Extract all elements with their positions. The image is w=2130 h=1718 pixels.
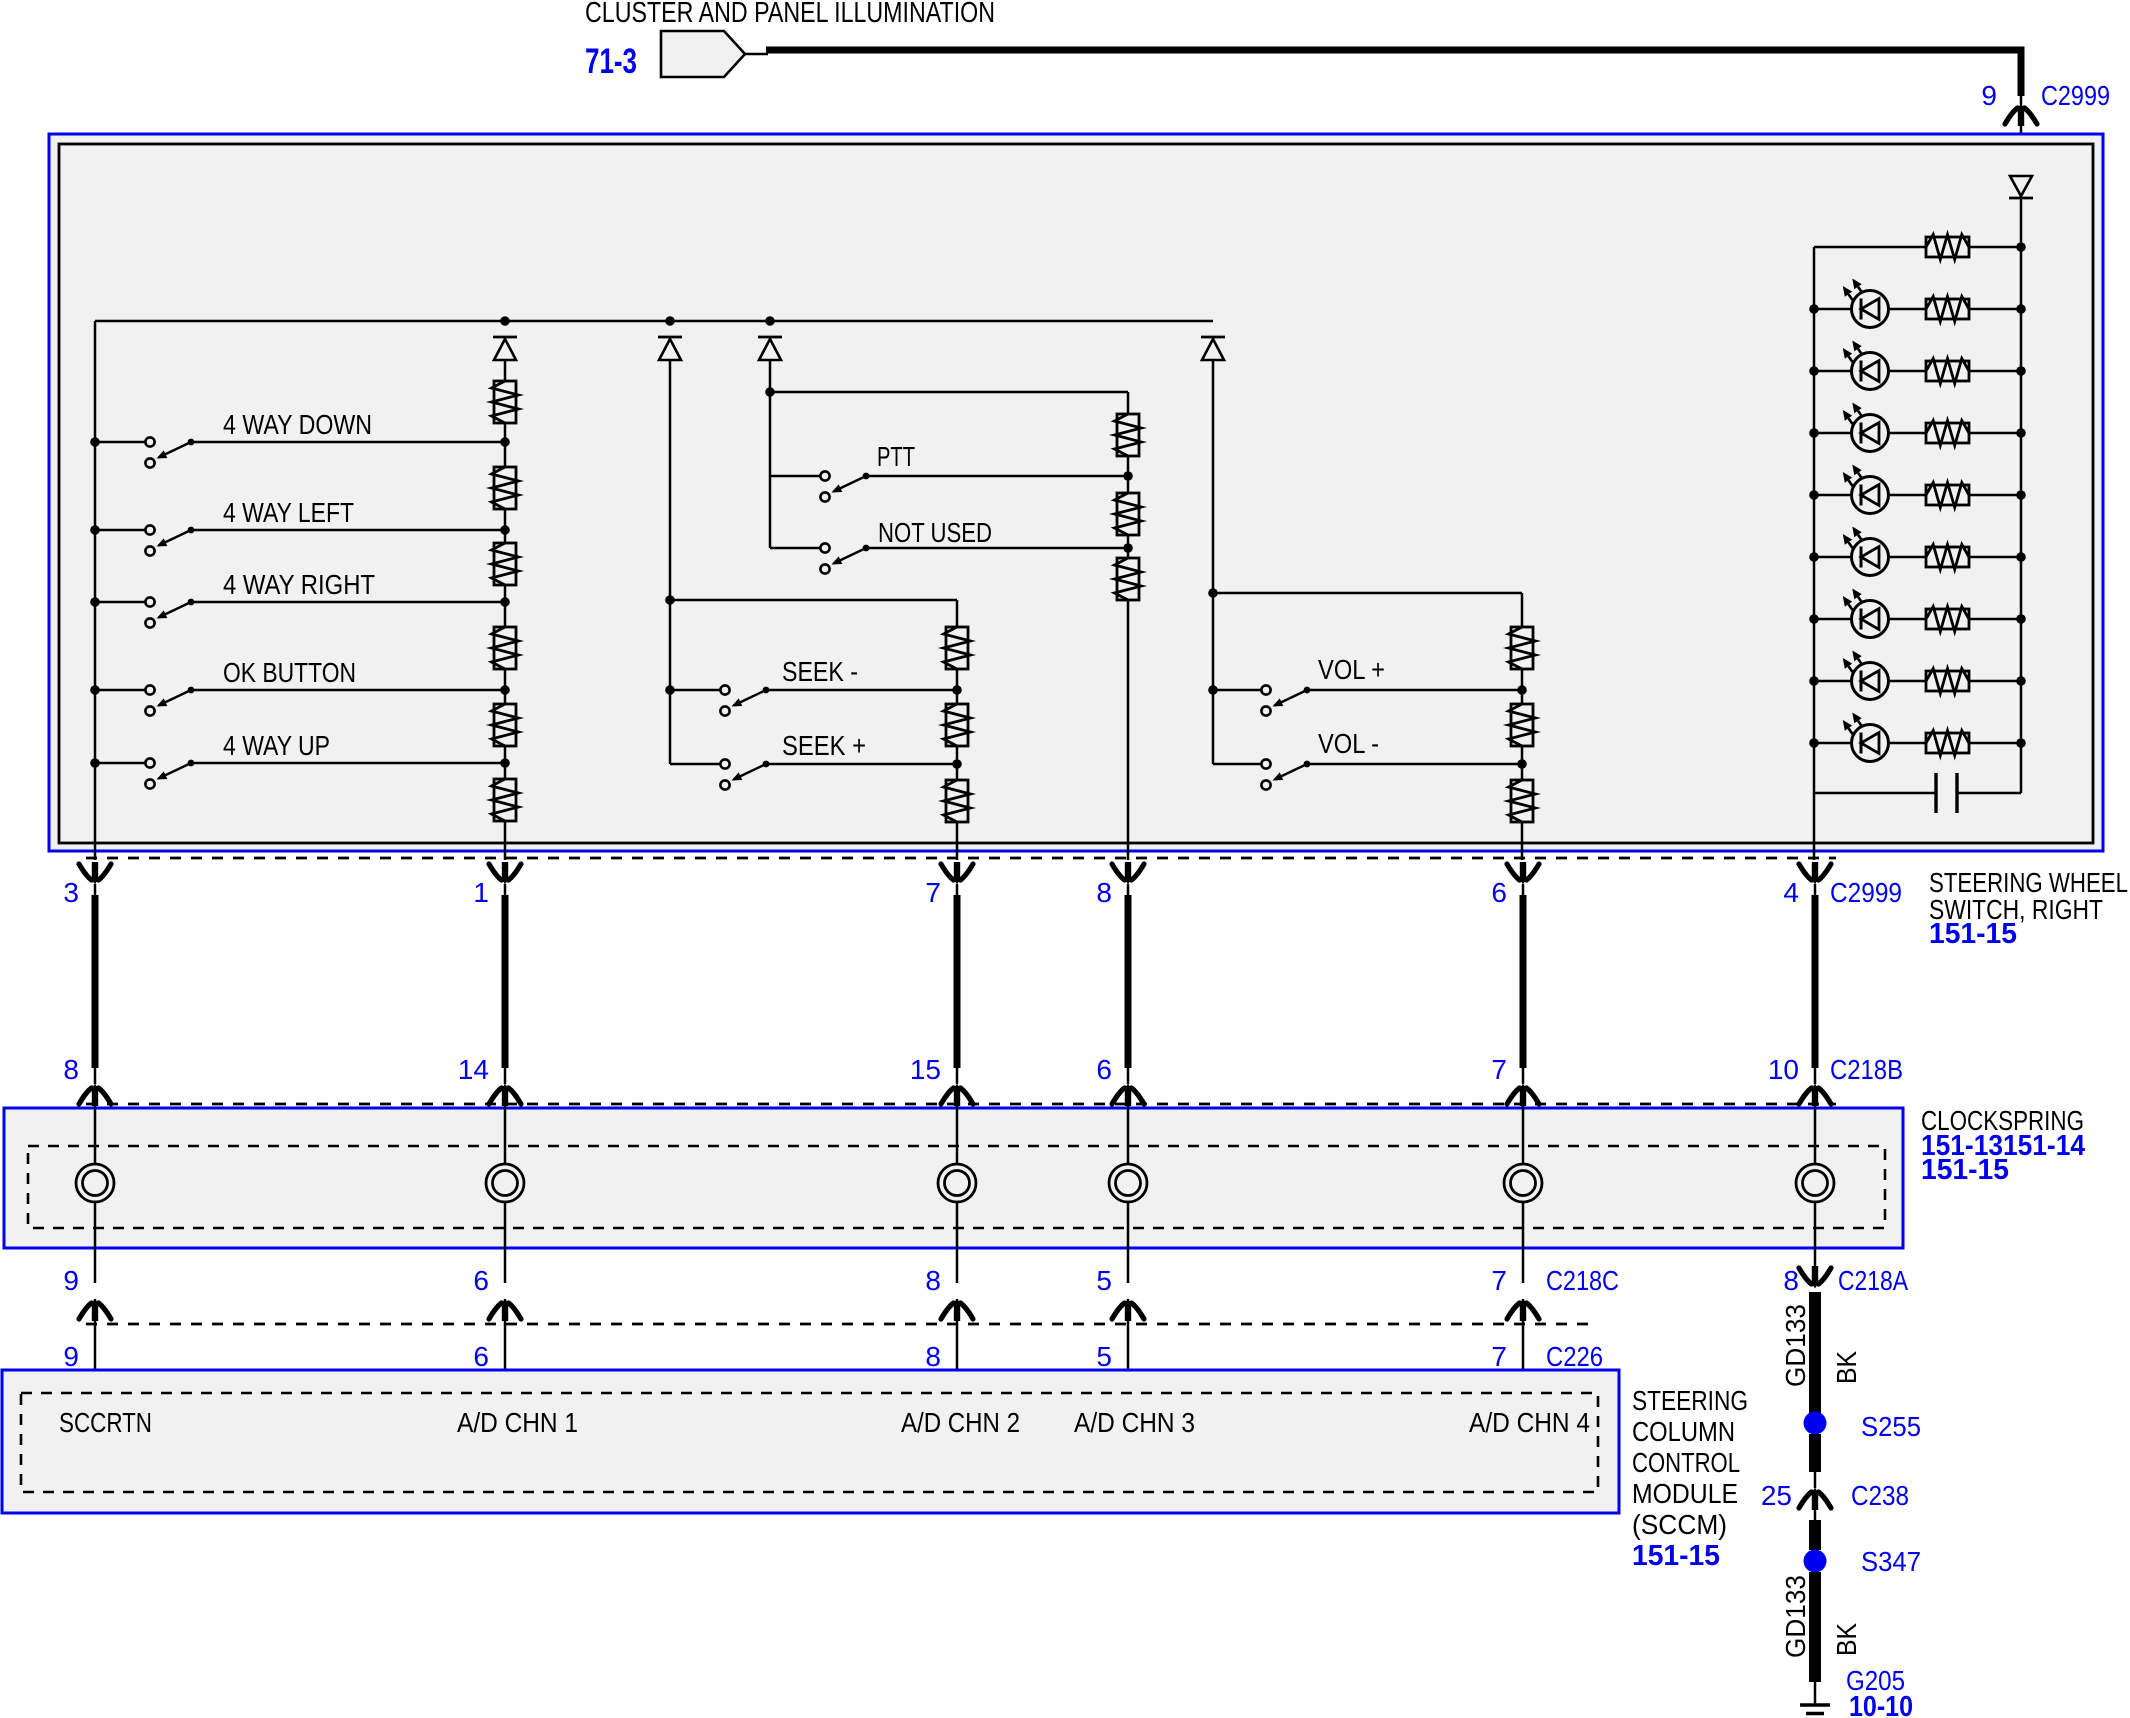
LED left bus xyxy=(1813,247,1816,860)
svg-text:A/D CHN 1: A/D CHN 1 xyxy=(457,1407,578,1438)
switch SEEK - xyxy=(720,685,729,694)
thick illumination feed wire xyxy=(766,50,2021,96)
node left bus 4 WAY LEFT xyxy=(90,525,100,535)
wire resistor to right bus row2 xyxy=(1969,370,2021,373)
wire switch to resistor column 4 WAY RIGHT xyxy=(191,601,505,604)
node left bus OK BUTTON xyxy=(90,685,100,695)
thick wire pin 3 xyxy=(92,895,99,1068)
svg-text:C226: C226 xyxy=(1546,1341,1603,1372)
wire into clockspring x1128 xyxy=(1127,1104,1130,1164)
wire PTT mid joints xyxy=(1127,476,1130,493)
illumination resistor row0 xyxy=(1926,237,1969,257)
wire below C238 xyxy=(1814,1509,1817,1522)
resistor PTT top xyxy=(1117,414,1139,456)
wire diode x1213 down xyxy=(1212,360,1215,593)
node resistor column 4 WAY DOWN xyxy=(500,437,510,447)
wire seek res col top xyxy=(956,600,959,627)
wire resistor to right bus row8 xyxy=(1969,742,2021,745)
svg-text:151-15: 151-15 xyxy=(1921,1154,2009,1186)
clockspring coil x957 xyxy=(938,1164,976,1202)
connector C218B pin 10 arrow xyxy=(1799,1088,1812,1104)
wire out of clockspring x957 xyxy=(956,1202,959,1283)
connector C218B pin 6 arrow xyxy=(1112,1088,1125,1104)
wire into clockspring x95 xyxy=(94,1104,97,1164)
wire VOL+ switch to col xyxy=(1307,689,1522,692)
wire C2999 pin 8 stub xyxy=(1127,884,1130,897)
wire left bus to LED row1 xyxy=(1814,308,1852,311)
wire out of clockspring x505 xyxy=(504,1202,507,1283)
node LED left bus row3 xyxy=(1809,428,1819,438)
thick wire C238 to S347 xyxy=(1809,1520,1821,1550)
connector C218C pin 9 arrow xyxy=(79,1303,92,1319)
connector C218B pin 7 arrow xyxy=(1507,1088,1520,1104)
wire vol res col top xyxy=(1521,593,1524,627)
top bus wire xyxy=(95,320,1213,323)
SCCM blue box xyxy=(2,1370,1619,1513)
resistor VOL top xyxy=(1511,627,1533,669)
wire seek mid joints xyxy=(956,690,959,704)
wire R-E joints xyxy=(504,690,507,704)
thick wire pin 8 xyxy=(1125,895,1132,1068)
svg-text:7: 7 xyxy=(925,877,941,908)
illumination resistor row7 xyxy=(1926,671,1969,691)
illumination resistor row4 xyxy=(1926,485,1969,505)
wire out of clockspring x95 xyxy=(94,1202,97,1283)
clockspring inner dashed box xyxy=(28,1146,1885,1228)
wire C2999 pin 1 stub xyxy=(504,884,507,897)
node LED left bus row7 xyxy=(1809,676,1819,686)
connector C218B pin 14 arrow xyxy=(489,1088,502,1104)
wire diode x670 down xyxy=(669,360,672,600)
node x770 PTT branch xyxy=(765,387,775,397)
node LED left bus row1 xyxy=(1809,304,1819,314)
node vol branch xyxy=(1208,588,1218,598)
wire switch to resistor column 4 WAY UP xyxy=(191,762,505,765)
wire to C218B pin 8 xyxy=(94,1068,97,1084)
node seek branch x670 xyxy=(665,595,675,605)
switch NOT USED xyxy=(820,543,829,552)
node NOT USED col xyxy=(1123,543,1133,553)
wire x670 down to seek+ xyxy=(669,600,672,764)
wire diode x770 down xyxy=(769,360,772,548)
wire SEEK+ switch to col xyxy=(766,763,957,766)
svg-text:S255: S255 xyxy=(1861,1411,1921,1442)
svg-text:8: 8 xyxy=(63,1054,79,1085)
svg-text:C218C: C218C xyxy=(1546,1265,1619,1296)
wire resistor to right bus row7 xyxy=(1969,680,2021,683)
svg-text:OK BUTTON: OK BUTTON xyxy=(223,657,356,688)
splice S255 xyxy=(1804,1412,1827,1435)
wire switch to resistor column OK BUTTON xyxy=(191,689,505,692)
connector C238 arrow xyxy=(1799,1492,1812,1508)
wire LED to resistor row8 xyxy=(1889,742,1926,745)
connector C2999 pin 9 arrow xyxy=(2005,108,2018,124)
resistor VOL bottom xyxy=(1511,780,1533,822)
SCCM inner dashed box xyxy=(21,1393,1598,1492)
switch 4 WAY UP xyxy=(145,758,154,767)
connector C2999 pin 3 arrow xyxy=(79,864,92,880)
LED row6 xyxy=(1852,601,1889,638)
wire left bus to LED row7 xyxy=(1814,680,1852,683)
svg-text:A/D CHN 3: A/D CHN 3 xyxy=(1074,1407,1195,1438)
wire bus to SEEK- switch xyxy=(670,689,720,692)
wire LED to resistor row5 xyxy=(1889,556,1926,559)
svg-text:SCCRTN: SCCRTN xyxy=(59,1407,152,1438)
wire seek top bus xyxy=(670,599,957,602)
wire resistor to right bus row3 xyxy=(1969,432,2021,435)
off-page connector pentagon xyxy=(661,31,745,77)
svg-text:6: 6 xyxy=(1491,877,1507,908)
wire bus to SEEK+ switch xyxy=(670,763,720,766)
steering wheel switch outer blue box xyxy=(49,134,2103,851)
switch PTT xyxy=(820,471,829,480)
node VOL- col xyxy=(1517,759,1527,769)
svg-text:PTT: PTT xyxy=(877,441,915,472)
wire col x1128 to pin8 xyxy=(1127,548,1130,558)
thick wire pin 4 xyxy=(1812,895,1819,1068)
illumination resistor row6 xyxy=(1926,609,1969,629)
connector C2999 pin 1 arrow xyxy=(489,864,502,880)
wire x770 to PTT switch xyxy=(770,475,820,478)
wire into clockspring x957 xyxy=(956,1104,959,1164)
node right bus row5 xyxy=(2016,552,2026,562)
wire R-D joints xyxy=(504,602,507,627)
node LED left bus row4 xyxy=(1809,490,1819,500)
LED row8 xyxy=(1852,725,1889,762)
connector C218B pin 15 arrow xyxy=(941,1088,954,1104)
wire bus to switch OK BUTTON xyxy=(95,689,145,692)
wire x770 to NOT USED switch xyxy=(770,547,820,550)
wire bus to VOL+ switch xyxy=(1213,689,1261,692)
ground G205 symbol xyxy=(1800,1703,1830,1706)
wire bus to VOL- switch xyxy=(1213,763,1261,766)
node resistor column 4 WAY RIGHT xyxy=(500,597,510,607)
connector C218C pin 7 arrow xyxy=(1507,1303,1520,1319)
switch 4 WAY RIGHT xyxy=(145,597,154,606)
node right bus row0 xyxy=(2016,242,2026,252)
svg-text:7: 7 xyxy=(1491,1341,1507,1372)
clockspring coil x95 xyxy=(76,1164,114,1202)
wire LED to resistor row4 xyxy=(1889,494,1926,497)
wire into clockspring x505 xyxy=(504,1104,507,1164)
node vol+ bus xyxy=(1208,685,1218,695)
wire to C218B pin 6 xyxy=(1127,1068,1130,1084)
wire VOL- switch to col xyxy=(1307,763,1522,766)
svg-text:10: 10 xyxy=(1768,1054,1799,1085)
node resistor column 4 WAY LEFT xyxy=(500,525,510,535)
svg-text:8: 8 xyxy=(925,1341,941,1372)
diode col x770 xyxy=(758,336,782,339)
node right bus row3 xyxy=(2016,428,2026,438)
svg-text:BK: BK xyxy=(1831,1623,1862,1656)
svg-text:5: 5 xyxy=(1096,1341,1112,1372)
svg-text:4 WAY UP: 4 WAY UP xyxy=(223,730,330,761)
wire diode to R-A xyxy=(504,360,507,381)
wire C2999 pin 6 stub xyxy=(1522,884,1525,897)
wire PTT switch to col xyxy=(866,475,1128,478)
wire to C238 arrow xyxy=(1814,1472,1817,1488)
connector C218B dashed line xyxy=(86,1103,1836,1106)
wire resistor to right bus row5 xyxy=(1969,556,2021,559)
illumination resistor row3 xyxy=(1926,423,1969,443)
svg-text:6: 6 xyxy=(473,1265,489,1296)
resistor SEEK top xyxy=(946,627,968,669)
node LED left bus row5 xyxy=(1809,552,1819,562)
LED row2 xyxy=(1852,353,1889,390)
svg-text:4 WAY RIGHT: 4 WAY RIGHT xyxy=(223,569,375,600)
wire C218C pin 5 to SCCM xyxy=(1127,1299,1130,1393)
thick wire GD133 lower xyxy=(1809,1572,1821,1682)
svg-text:S347: S347 xyxy=(1861,1546,1921,1577)
resistor PTT mid xyxy=(1117,493,1139,535)
wire capacitor to right bus xyxy=(1957,792,2021,795)
connector C2999 pin 8 arrow xyxy=(1112,864,1125,880)
wire left bus to LED row6 xyxy=(1814,618,1852,621)
node SEEK- col xyxy=(952,685,962,695)
svg-text:CONTROL: CONTROL xyxy=(1632,1447,1740,1478)
resistor SEEK mid xyxy=(946,704,968,746)
connector C226 dashed line xyxy=(86,1323,1594,1326)
wire vol top bus xyxy=(1213,592,1522,595)
wire vol mid joints xyxy=(1521,690,1524,704)
connector C2999 dashed line xyxy=(86,857,1836,860)
wire left bus to capacitor xyxy=(1814,792,1936,795)
wire out of clockspring x1815 xyxy=(1814,1202,1817,1268)
node resistor column OK BUTTON xyxy=(500,685,510,695)
wire C2999 pin 4 stub xyxy=(1814,884,1817,897)
wire x1213 down to vol- xyxy=(1212,593,1215,764)
svg-text:151-15: 151-15 xyxy=(1929,918,2017,950)
wire resistor to right bus row6 xyxy=(1969,618,2021,621)
wire bus to switch 4 WAY DOWN xyxy=(95,441,145,444)
node right bus row8 xyxy=(2016,738,2026,748)
wire bus to switch 4 WAY RIGHT xyxy=(95,601,145,604)
svg-text:VOL +: VOL + xyxy=(1318,654,1385,685)
node right bus row4 xyxy=(2016,490,2026,500)
resistor VOL mid xyxy=(1511,704,1533,746)
svg-text:VOL -: VOL - xyxy=(1318,728,1379,759)
wire row0 to right bus xyxy=(1969,246,2021,249)
svg-text:15: 15 xyxy=(910,1054,941,1085)
steering wheel switch inner black box xyxy=(59,144,2093,843)
node right bus row1 xyxy=(2016,304,2026,314)
node left bus 4 WAY RIGHT xyxy=(90,597,100,607)
connector C218A arrow xyxy=(1799,1268,1812,1284)
svg-text:9: 9 xyxy=(1981,80,1997,111)
clockspring coil x1523 xyxy=(1504,1164,1542,1202)
switch VOL - xyxy=(1261,759,1270,768)
switch VOL + xyxy=(1261,685,1270,694)
clockspring coil x1128 xyxy=(1109,1164,1147,1202)
wire C218C pin 6 to SCCM xyxy=(504,1299,507,1393)
svg-text:STEERING: STEERING xyxy=(1632,1385,1748,1416)
svg-text:GD133: GD133 xyxy=(1780,1575,1811,1658)
switch OK BUTTON xyxy=(145,685,154,694)
LED row7 xyxy=(1852,663,1889,700)
svg-text:8: 8 xyxy=(1783,1265,1799,1296)
svg-text:5: 5 xyxy=(1096,1265,1112,1296)
wire thick-end to pin9 arrow xyxy=(2020,93,2023,107)
wire to C218B pin 10 xyxy=(1814,1068,1817,1084)
LED row4 xyxy=(1852,477,1889,514)
connector C2999 pin 7 arrow xyxy=(941,864,954,880)
node VOL+ col xyxy=(1517,685,1527,695)
wire to C218B pin 15 xyxy=(956,1068,959,1084)
svg-text:GD133: GD133 xyxy=(1780,1304,1811,1387)
wire seek res to row xyxy=(956,669,959,690)
svg-text:8: 8 xyxy=(1096,877,1112,908)
resistor R-D xyxy=(494,627,516,669)
wire out of clockspring x1128 xyxy=(1127,1202,1130,1283)
clockspring coil x1815 xyxy=(1796,1164,1834,1202)
wire left bus to LED row2 xyxy=(1814,370,1852,373)
wire to C218B pin 14 xyxy=(504,1068,507,1084)
illumination resistor row5 xyxy=(1926,547,1969,567)
wire out of clockspring x1523 xyxy=(1522,1202,1525,1283)
wire R-B joints xyxy=(504,442,507,467)
svg-text:SEEK -: SEEK - xyxy=(782,656,858,687)
node seek- bus xyxy=(665,685,675,695)
illumination resistor row0 wire xyxy=(1814,246,1926,249)
resistor R-F xyxy=(494,779,516,821)
thick wire pin 7 xyxy=(954,895,961,1068)
svg-text:7: 7 xyxy=(1491,1054,1507,1085)
wire to ground xyxy=(1814,1682,1817,1705)
wire vol res to row xyxy=(1521,669,1524,690)
wire R-F to pin1 xyxy=(504,763,507,779)
LED row1 xyxy=(1852,291,1889,328)
svg-text:6: 6 xyxy=(473,1341,489,1372)
wire C218C pin 7 to SCCM xyxy=(1522,1299,1525,1393)
node right bus row6 xyxy=(2016,614,2026,624)
diode col x505 xyxy=(493,336,517,339)
wire to C218B pin 7 xyxy=(1522,1068,1525,1084)
svg-text:151-15: 151-15 xyxy=(1632,1540,1720,1572)
wire col x1522 to pin6 xyxy=(1521,764,1524,780)
node PTT col xyxy=(1123,471,1133,481)
connector C218C pin 8 arrow xyxy=(941,1303,954,1319)
node right bus row7 xyxy=(2016,676,2026,686)
connector C2999 pin 4 arrow xyxy=(1799,864,1812,880)
svg-text:A/D CHN 4: A/D CHN 4 xyxy=(1469,1407,1590,1438)
switch SEEK + xyxy=(720,759,729,768)
LED row3 xyxy=(1852,415,1889,452)
wire into clockspring x1523 xyxy=(1522,1104,1525,1164)
wire C2999 pin 7 stub xyxy=(956,884,959,897)
wire LED to resistor row3 xyxy=(1889,432,1926,435)
wire PTT res to row xyxy=(1127,456,1130,476)
wire C218C pin 9 to SCCM xyxy=(94,1299,97,1393)
svg-text:9: 9 xyxy=(63,1265,79,1296)
splice S347 xyxy=(1804,1550,1827,1573)
wire LED to resistor row1 xyxy=(1889,308,1926,311)
resistor R-C xyxy=(494,543,516,585)
capacitor plates xyxy=(1934,773,1937,813)
wire PTT res col down xyxy=(1127,392,1130,414)
illumination resistor row2 xyxy=(1926,361,1969,381)
resistor R-E xyxy=(494,704,516,746)
node LED left bus row8 xyxy=(1809,738,1819,748)
clockspring coil x505 xyxy=(486,1164,524,1202)
node resistor column 4 WAY UP xyxy=(500,758,510,768)
illumination resistor row1 xyxy=(1926,299,1969,319)
svg-text:8: 8 xyxy=(925,1265,941,1296)
wire R-A to 4way-down row xyxy=(504,423,507,442)
feed diode (from pin 9) xyxy=(2009,197,2033,200)
node LED left bus row6 xyxy=(1809,614,1819,624)
svg-text:CLUSTER AND PANEL ILLUMINATION: CLUSTER AND PANEL ILLUMINATION xyxy=(585,0,995,29)
wire NOT USED switch to col xyxy=(866,547,1128,550)
thick wire pin 6 xyxy=(1520,895,1527,1068)
svg-text:7: 7 xyxy=(1491,1265,1507,1296)
wire bus to switch 4 WAY UP xyxy=(95,762,145,765)
svg-text:MODULE: MODULE xyxy=(1632,1478,1738,1509)
wire x770 top to PTT resistor col xyxy=(770,391,1128,394)
diode col x670 xyxy=(658,336,682,339)
svg-text:4 WAY LEFT: 4 WAY LEFT xyxy=(223,497,354,528)
node top bus / diode col3 xyxy=(765,316,775,326)
resistor NOT USED bottom xyxy=(1117,558,1139,600)
wire bus to switch 4 WAY LEFT xyxy=(95,529,145,532)
thick wire S255 to C238 xyxy=(1809,1434,1821,1472)
LED right bus xyxy=(2020,247,2023,793)
svg-text:C2999: C2999 xyxy=(1830,877,1902,908)
wire LED to resistor row6 xyxy=(1889,618,1926,621)
svg-text:71-3: 71-3 xyxy=(585,42,637,81)
resistor R-A xyxy=(494,381,516,423)
svg-text:C218B: C218B xyxy=(1830,1054,1903,1085)
svg-text:9: 9 xyxy=(63,1341,79,1372)
wire C2999 pin 3 stub xyxy=(94,884,97,897)
node LED left bus row2 xyxy=(1809,366,1819,376)
thick wire GD133 upper xyxy=(1809,1292,1821,1423)
wire resistor to right bus row1 xyxy=(1969,308,2021,311)
LED row5 xyxy=(1852,539,1889,576)
node left bus 4 WAY DOWN xyxy=(90,437,100,447)
svg-text:A/D CHN 2: A/D CHN 2 xyxy=(901,1407,1020,1438)
wire left bus to LED row4 xyxy=(1814,494,1852,497)
connector C218C pin 6 arrow xyxy=(489,1303,502,1319)
node SEEK+ col xyxy=(952,759,962,769)
svg-text:(SCCM): (SCCM) xyxy=(1632,1509,1727,1540)
svg-text:25: 25 xyxy=(1761,1480,1792,1511)
svg-text:10-10: 10-10 xyxy=(1849,1691,1913,1718)
node top bus / diode col1 xyxy=(500,316,510,326)
wire resistor to right bus row4 xyxy=(1969,494,2021,497)
node left bus 4 WAY UP xyxy=(90,758,100,768)
svg-text:14: 14 xyxy=(458,1054,489,1085)
wire left bus to LED row5 xyxy=(1814,556,1852,559)
wire stub from pentagon xyxy=(745,53,768,56)
svg-text:COLUMN: COLUMN xyxy=(1632,1416,1735,1447)
connector C218B pin 8 arrow xyxy=(79,1088,92,1104)
svg-text:6: 6 xyxy=(1096,1054,1112,1085)
wire LED to resistor row2 xyxy=(1889,370,1926,373)
diode col x1213 xyxy=(1201,336,1225,339)
wire left bus to LED row8 xyxy=(1814,742,1852,745)
wire switch to resistor column 4 WAY LEFT xyxy=(191,529,505,532)
svg-text:C2999: C2999 xyxy=(2041,80,2110,111)
connector C218C pin 5 arrow xyxy=(1112,1303,1125,1319)
svg-text:4: 4 xyxy=(1783,877,1799,908)
node top bus / diode col2 xyxy=(665,316,675,326)
switch 4 WAY DOWN xyxy=(145,437,154,446)
svg-text:BK: BK xyxy=(1831,1351,1862,1384)
clockspring blue box xyxy=(4,1108,1903,1248)
svg-text:3: 3 xyxy=(63,877,79,908)
svg-text:C218A: C218A xyxy=(1838,1265,1908,1296)
switch 4 WAY LEFT xyxy=(145,525,154,534)
